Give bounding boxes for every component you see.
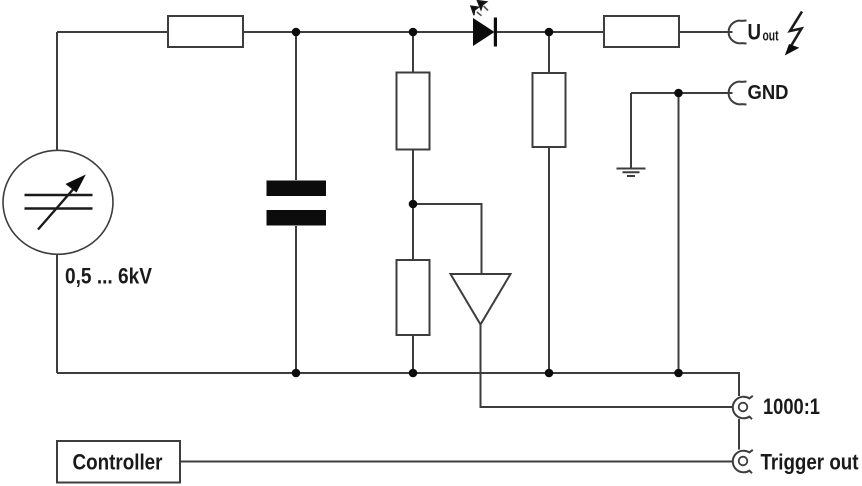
wire ground stub: [630, 93, 632, 168]
capacitor C1 top plate: [267, 181, 327, 197]
node dot top rail at capacitor: [292, 28, 301, 37]
node dot A divider: [409, 200, 418, 209]
node dot bus at R4: [409, 369, 418, 378]
ground symbol: [617, 169, 646, 177]
wire left rail from top to source: [56, 32, 58, 150]
source G1 variable HV source circle: [3, 150, 113, 254]
resistor R1: [168, 16, 243, 47]
wire R2 to Uout connector: [679, 31, 733, 33]
buffer amplifier U1 triangle: [451, 274, 511, 325]
capacitor C1 bottom plate: [267, 210, 327, 226]
wire divider branch R3 top: [412, 32, 414, 73]
LED D1 triangle: [473, 18, 495, 46]
wire GND to bus: [678, 93, 680, 373]
connector Trigger outer arc: [733, 450, 753, 473]
wire R4 bottom to bus: [412, 335, 414, 373]
svg-text:U: U: [748, 20, 762, 45]
controller box: [57, 441, 180, 483]
wire source bottom to bus: [56, 255, 58, 374]
wire divider branch R5 top: [548, 32, 550, 73]
svg-text:Controller: Controller: [73, 450, 163, 475]
wire capacitor branch upper: [295, 32, 297, 180]
wire buffer output down: [481, 325, 734, 408]
resistor R2: [604, 16, 679, 47]
wire R3 bottom to node A: [412, 150, 414, 261]
source G1 internal symbol: [25, 186, 93, 230]
connector Trigger pin: [739, 457, 748, 466]
wire GND rail: [631, 92, 733, 94]
node dot bus at R5: [545, 369, 554, 378]
svg-text:Trigger out: Trigger out: [761, 450, 860, 475]
LED D1 emission arrows: [471, 1, 488, 16]
resistor R4: [397, 260, 430, 335]
wire R5 bottom to bus: [548, 147, 550, 373]
wire node A to buffer input: [413, 204, 482, 274]
source G1 arrow head: [66, 175, 86, 193]
wire between connector shields: [738, 419, 740, 450]
lightning bolt symbol at Uout: [785, 12, 802, 56]
connector Uout arc: [729, 21, 747, 44]
node dot top rail at R5: [545, 28, 554, 37]
svg-text:1000:1: 1000:1: [763, 394, 820, 419]
svg-text:out: out: [763, 27, 779, 44]
wire LED cathode to resistor R2: [497, 31, 604, 33]
connector 1000:1 pin: [739, 403, 748, 412]
node dot bus at capacitor: [292, 369, 301, 378]
connector 1000:1 outer arc: [733, 396, 753, 419]
node dot GND rail: [674, 89, 683, 98]
wire bottom bus: [57, 373, 739, 396]
svg-text:GND: GND: [748, 81, 789, 104]
wire controller to trigger connector: [180, 461, 732, 463]
LED D1 cathode bar: [494, 18, 497, 47]
wire top rail left segment: [57, 31, 168, 33]
connector GND arc: [729, 82, 747, 105]
resistor R5: [533, 73, 566, 147]
wire top rail middle segment: [243, 31, 473, 33]
resistor R3: [397, 73, 430, 150]
node dot bus at GND branch: [674, 369, 683, 378]
node dot top rail at R3: [409, 28, 418, 37]
wire capacitor branch lower: [295, 226, 297, 373]
svg-text:0,5 ... 6kV: 0,5 ... 6kV: [65, 264, 152, 289]
